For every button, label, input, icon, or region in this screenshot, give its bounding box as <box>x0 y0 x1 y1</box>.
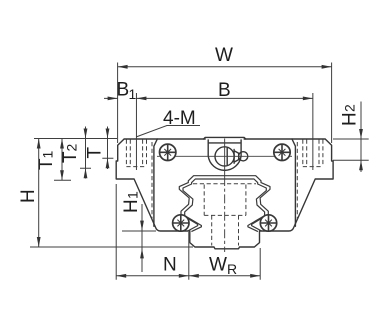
svg-text:B: B <box>117 80 130 101</box>
svg-text:R: R <box>227 261 237 277</box>
svg-text:2: 2 <box>342 104 358 112</box>
svg-text:1: 1 <box>129 86 137 102</box>
svg-text:B: B <box>218 80 231 101</box>
svg-text:W: W <box>209 255 227 276</box>
svg-text:T: T <box>85 147 106 159</box>
svg-text:H: H <box>121 199 142 213</box>
svg-text:H: H <box>340 112 361 126</box>
svg-text:1: 1 <box>40 151 56 159</box>
svg-text:T: T <box>60 151 81 163</box>
svg-text:W: W <box>215 45 233 66</box>
svg-text:1: 1 <box>125 191 141 199</box>
svg-text:N: N <box>163 255 177 276</box>
svg-text:2: 2 <box>64 144 80 152</box>
svg-text:H: H <box>18 189 39 203</box>
